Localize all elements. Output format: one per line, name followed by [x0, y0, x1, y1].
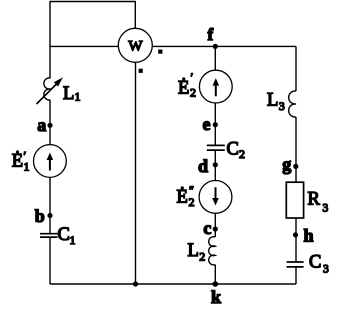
- node e: [213, 122, 218, 127]
- wire top horizontal: [50, 1, 136, 3]
- capacitor C3: [287, 262, 304, 267]
- svg-text:e: e: [203, 114, 211, 134]
- label L3: [267, 91, 285, 114]
- wire wattmeter top lead: [134, 2, 136, 29]
- svg-text:C: C: [58, 225, 70, 245]
- node k: [213, 281, 219, 287]
- label R3: [308, 189, 329, 214]
- inductor L3: [289, 91, 296, 117]
- wire C1 to bottom: [49, 238, 51, 284]
- node c: [213, 226, 218, 231]
- wire wattmeter bottom lead: [135, 62, 137, 284]
- svg-text:1: 1: [24, 160, 30, 174]
- node b: [47, 213, 52, 218]
- label E2'': [177, 183, 195, 209]
- wire E2' to node e: [214, 103, 216, 145]
- wire f to E2': [214, 46, 216, 70]
- wire second horizontal right: [152, 45, 296, 47]
- svg-text:1: 1: [75, 90, 81, 104]
- wire E1 to node b: [49, 177, 51, 233]
- svg-text:3: 3: [279, 99, 285, 113]
- inductor L2: [209, 237, 216, 265]
- wattmeter W: [118, 28, 152, 62]
- wire L2 to node k: [214, 265, 216, 284]
- svg-text:3: 3: [323, 203, 329, 215]
- svg-text:c: c: [203, 218, 211, 238]
- svg-text:2: 2: [199, 250, 205, 264]
- svg-text:a: a: [37, 115, 46, 135]
- svg-text:b: b: [35, 206, 45, 226]
- svg-text:Ė: Ė: [12, 151, 23, 172]
- svg-text:R: R: [308, 189, 321, 209]
- svg-text:L: L: [267, 91, 278, 111]
- inductor L1: [37, 77, 64, 104]
- label E2': [178, 70, 196, 100]
- label L1: [63, 84, 81, 104]
- wire right rail upper: [295, 46, 297, 91]
- label C3: [309, 253, 329, 276]
- node a: [47, 123, 52, 128]
- svg-text:h: h: [304, 226, 314, 246]
- svg-text:2: 2: [190, 86, 196, 100]
- wattmeter dot right: [158, 50, 162, 54]
- svg-text:k: k: [211, 287, 221, 307]
- source E1: [34, 145, 67, 178]
- source E2': [199, 70, 232, 103]
- svg-text:L: L: [188, 241, 199, 261]
- node h: [293, 232, 298, 237]
- svg-text:2: 2: [189, 195, 195, 209]
- wire bottom horizontal: [50, 283, 296, 285]
- wire L1 to node a: [49, 100, 51, 145]
- label E1': [12, 149, 30, 174]
- svg-text:′: ′: [191, 70, 194, 84]
- svg-text:L: L: [63, 84, 74, 104]
- svg-text:f: f: [208, 25, 214, 44]
- node d: [213, 162, 218, 167]
- svg-text:C: C: [227, 140, 239, 160]
- wire C3 to bottom: [295, 268, 297, 285]
- svg-text:W: W: [128, 38, 143, 54]
- capacitor C1: [40, 234, 58, 237]
- wire left rail upper: [49, 2, 51, 79]
- label C1: [58, 225, 76, 247]
- svg-text:1: 1: [70, 233, 76, 247]
- label L2: [188, 241, 206, 264]
- label C2: [227, 140, 246, 161]
- svg-text:Ė: Ė: [177, 187, 188, 208]
- node f: [213, 44, 218, 49]
- source E2'': [199, 181, 232, 214]
- svg-text:2: 2: [239, 147, 245, 161]
- wire second horizontal left: [50, 45, 118, 47]
- junction wattmeter-bottom: [133, 281, 138, 286]
- svg-text:Ė: Ė: [178, 78, 189, 99]
- capacitor C2: [207, 145, 225, 150]
- wire C2 to node d: [214, 151, 216, 181]
- wattmeter dot bottom: [139, 69, 143, 73]
- wire E2'' to node c: [214, 213, 216, 237]
- svg-text:g: g: [282, 154, 291, 174]
- svg-text:C: C: [309, 253, 321, 273]
- wire L3 to node g: [295, 117, 297, 182]
- svg-text:d: d: [198, 156, 208, 176]
- resistor R3: [286, 182, 303, 218]
- node g: [293, 164, 298, 169]
- wire R3 to node h: [295, 218, 297, 262]
- svg-text:3: 3: [323, 264, 329, 276]
